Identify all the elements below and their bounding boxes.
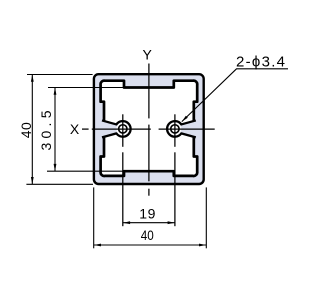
dim 40 bottom: dimension line	[94, 244, 207, 246]
svg-text:40: 40	[18, 122, 34, 139]
hole L white core	[116, 122, 129, 135]
dim 40 bottom: extension lines	[94, 187, 207, 248]
X axis centreline	[82, 128, 215, 130]
left web + boss	[102, 120, 131, 137]
svg-text:30.5: 30.5	[38, 110, 54, 150]
svg-text:X: X	[70, 121, 80, 137]
dim 30.5: dimension line	[54, 88, 56, 172]
Y axis centreline	[148, 64, 150, 196]
right web + boss	[167, 120, 196, 137]
hole L phi3.4	[119, 125, 127, 133]
hole R phi3.4	[171, 125, 179, 133]
dim 19: dimension line	[123, 222, 175, 224]
dim 40 left: extension lines	[26, 75, 93, 185]
svg-text:19: 19	[139, 206, 156, 222]
outer profile body 40x40	[94, 74, 204, 184]
inner cavity	[101, 81, 198, 176]
leader 2-phi3.4	[182, 69, 288, 122]
svg-text:40: 40	[141, 227, 154, 243]
svg-text:Y: Y	[143, 46, 153, 62]
dim 40 left: dimension line	[31, 75, 33, 185]
dim 30.5: extension lines (pass through wall)	[47, 88, 123, 172]
svg-text:2-ϕ3.4: 2-ϕ3.4	[236, 54, 285, 71]
hole R white core	[168, 122, 181, 135]
hole centrelines / extension lines	[123, 114, 175, 226]
